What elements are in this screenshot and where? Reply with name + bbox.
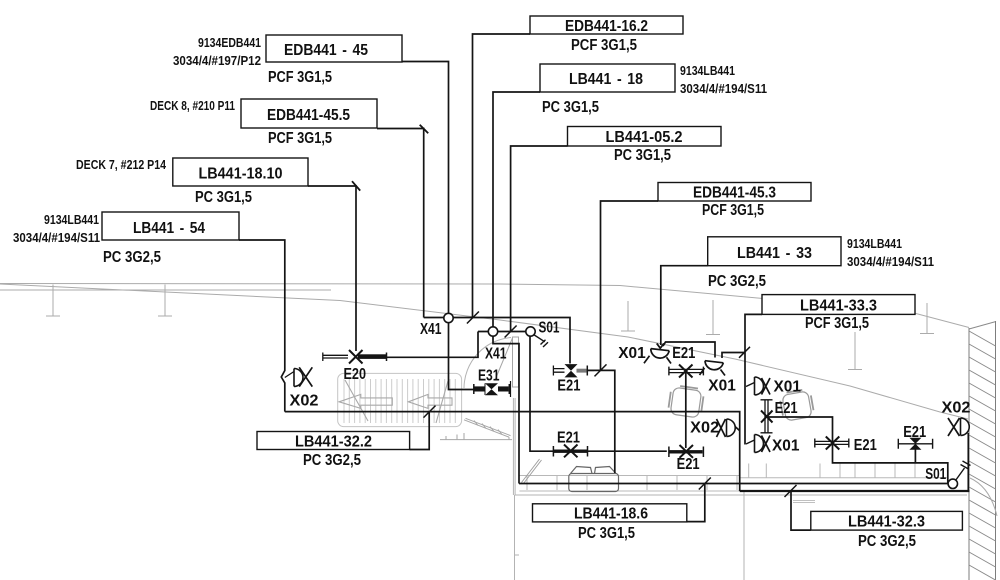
svg-text:3034/4/#194/S11: 3034/4/#194/S11 (13, 230, 100, 245)
svg-text:E21: E21 (557, 430, 580, 447)
svg-text:E21: E21 (854, 437, 877, 454)
svg-text:E21: E21 (677, 456, 700, 473)
svg-text:LB441-32.2: LB441-32.2 (295, 434, 372, 451)
svg-text:S01: S01 (539, 320, 560, 337)
svg-text:E31: E31 (478, 368, 500, 385)
svg-text:LB441-05.2: LB441-05.2 (606, 129, 683, 146)
svg-text:PC 3G1,5: PC 3G1,5 (542, 99, 599, 116)
svg-text:PC 3G1,5: PC 3G1,5 (578, 525, 635, 542)
svg-text:PC 3G2,5: PC 3G2,5 (303, 452, 361, 469)
svg-text:LB441-18.10: LB441-18.10 (199, 166, 283, 183)
svg-text:3034/4/#194/S11: 3034/4/#194/S11 (847, 254, 934, 269)
svg-text:E21: E21 (775, 400, 798, 417)
svg-text:X02: X02 (942, 400, 971, 417)
svg-text:DECK 8, #210 P11: DECK 8, #210 P11 (150, 98, 235, 113)
svg-text:PC 3G1,5: PC 3G1,5 (195, 189, 252, 206)
svg-text:LB441 - 33: LB441 - 33 (737, 245, 812, 262)
svg-text:PCF 3G1,5: PCF 3G1,5 (571, 37, 637, 54)
svg-text:X01: X01 (618, 345, 646, 362)
svg-text:EDB441-45.5: EDB441-45.5 (267, 107, 350, 124)
svg-text:X01: X01 (774, 379, 802, 396)
svg-text:E21: E21 (903, 424, 926, 441)
svg-text:EDB441 - 45: EDB441 - 45 (284, 42, 368, 59)
svg-text:S01: S01 (925, 466, 946, 483)
svg-text:9134LB441: 9134LB441 (847, 236, 902, 251)
svg-text:3034/4/#197/P12: 3034/4/#197/P12 (173, 53, 261, 68)
svg-text:PCF 3G1,5: PCF 3G1,5 (268, 130, 332, 147)
svg-text:X41: X41 (420, 321, 442, 338)
svg-text:3034/4/#194/S11: 3034/4/#194/S11 (680, 81, 767, 96)
svg-text:PC 3G1,5: PC 3G1,5 (614, 147, 671, 164)
svg-text:EDB441-45.3: EDB441-45.3 (693, 185, 776, 202)
svg-text:LB441 - 18: LB441 - 18 (569, 71, 643, 88)
svg-text:X02: X02 (690, 420, 719, 437)
svg-text:PCF 3G1,5: PCF 3G1,5 (805, 315, 869, 332)
svg-text:E21: E21 (672, 345, 695, 362)
svg-text:X01: X01 (772, 438, 800, 455)
svg-text:PC 3G2,5: PC 3G2,5 (708, 273, 766, 290)
svg-text:EDB441-16.2: EDB441-16.2 (565, 18, 648, 35)
svg-text:9134LB441: 9134LB441 (680, 63, 735, 78)
svg-text:X02: X02 (290, 393, 319, 410)
svg-text:LB441-33.3: LB441-33.3 (800, 298, 877, 315)
svg-text:PCF 3G1,5: PCF 3G1,5 (702, 202, 764, 219)
svg-text:9134EDB441: 9134EDB441 (198, 35, 261, 50)
svg-text:LB441 - 54: LB441 - 54 (133, 220, 205, 237)
svg-text:E21: E21 (557, 378, 580, 395)
svg-text:PC 3G2,5: PC 3G2,5 (103, 249, 161, 266)
svg-text:DECK 7, #212 P14: DECK 7, #212 P14 (76, 157, 167, 172)
svg-text:LB441-32.3: LB441-32.3 (848, 514, 925, 531)
svg-text:E20: E20 (344, 366, 367, 383)
svg-text:X41: X41 (485, 346, 507, 363)
svg-text:X01: X01 (708, 378, 736, 395)
svg-text:PC 3G2,5: PC 3G2,5 (858, 533, 916, 550)
svg-text:9134LB441: 9134LB441 (44, 212, 99, 227)
svg-text:PCF 3G1,5: PCF 3G1,5 (268, 69, 332, 86)
svg-text:LB441-18.6: LB441-18.6 (574, 506, 648, 523)
